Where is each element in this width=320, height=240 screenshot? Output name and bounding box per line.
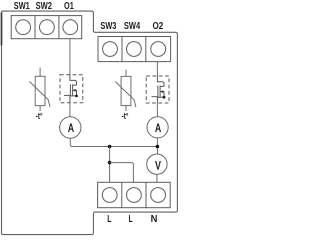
svg-text:A: A: [68, 121, 75, 135]
svg-text:O1: O1: [64, 1, 74, 12]
terminal block TB2: [98, 37, 171, 62]
wire switch box Q2 to ammeter A2: [156, 103, 158, 117]
wire junction1 down to L terminal: [109, 147, 111, 183]
output switch box Q2 (dashed): [146, 76, 169, 103]
thermistor RT2 body: [121, 76, 131, 105]
wire O1 to switch box: [69, 39, 71, 75]
terminal O2: [151, 42, 166, 57]
svg-text:SW2: SW2: [36, 1, 53, 12]
svg-text:-t°: -t°: [122, 111, 129, 121]
terminal block TB3: [98, 182, 171, 207]
left edge dark segment: [1, 13, 3, 46]
terminal N: [151, 188, 166, 203]
svg-text:V: V: [155, 159, 161, 173]
thermistor RT1 body: [35, 76, 45, 105]
junction dot 1: [108, 145, 112, 149]
svg-text:O2: O2: [153, 21, 164, 32]
svg-text:-t°: -t°: [36, 111, 43, 121]
thermistor RT1 bottom stub: [39, 106, 41, 111]
terminal L2: [126, 188, 141, 203]
terminal block TB1: [11, 16, 82, 39]
terminal SW4: [126, 42, 141, 57]
wire A1 down elbow to bus: [70, 138, 157, 146]
output switch box Q1 (dashed): [60, 75, 83, 103]
thermistor RT1 top stub: [39, 68, 41, 77]
mosfet Q2: [152, 76, 166, 103]
terminal SW1: [16, 20, 31, 35]
ammeter A1: [60, 117, 81, 138]
wire V1 to N terminal: [156, 174, 158, 182]
thermistor RT2 top stub: [125, 70, 127, 77]
terminal SW3: [103, 42, 118, 57]
svg-text:L: L: [107, 214, 111, 225]
junction dot 3: [156, 145, 160, 149]
terminal L1: [102, 188, 117, 203]
wire O2 to switch box Q2: [156, 62, 158, 76]
svg-text:L: L: [129, 214, 133, 225]
device outline: [2, 11, 178, 235]
voltmeter V1: [147, 154, 167, 174]
thermistor RT2 diagonal: [115, 82, 135, 108]
wire switch box Q1 to ammeter: [69, 103, 71, 117]
junction dot 2: [108, 161, 112, 165]
terminal SW2: [40, 20, 55, 35]
svg-text:N: N: [151, 214, 158, 225]
terminal O1: [63, 20, 78, 35]
thermistor RT1 diagonal: [30, 82, 51, 108]
svg-text:SW1: SW1: [14, 1, 30, 12]
svg-text:SW3: SW3: [100, 21, 116, 32]
mosfet Q1: [64, 75, 78, 103]
svg-text:A: A: [155, 121, 162, 135]
wire A2 down to junction 3: [156, 138, 158, 154]
thermistor RT2 bottom stub: [125, 106, 127, 111]
svg-text:SW4: SW4: [124, 21, 140, 32]
ammeter A2: [147, 117, 168, 138]
wire junction2 elbow to L2 terminal: [110, 163, 134, 183]
